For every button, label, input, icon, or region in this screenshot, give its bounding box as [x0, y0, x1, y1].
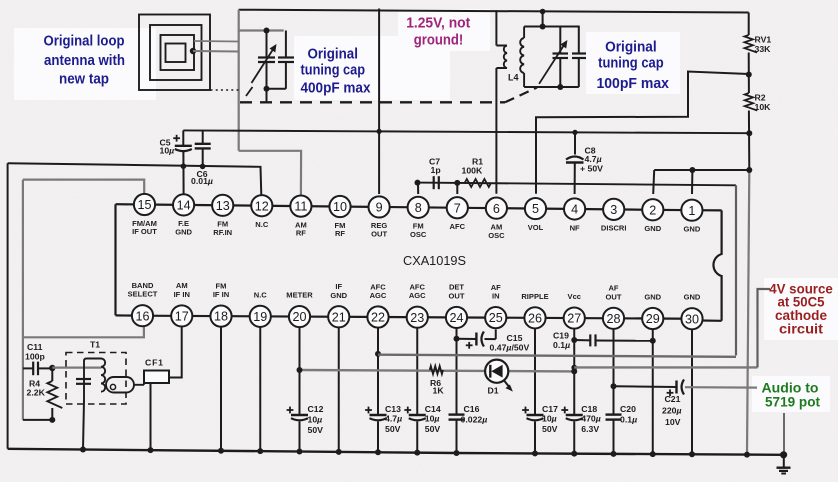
svg-text:50V: 50V	[425, 424, 441, 434]
wire antenna tap lower	[193, 50, 239, 53]
capacitor C13	[365, 407, 386, 421]
wire T1 ground drop	[83, 400, 84, 450]
svg-text:D1: D1	[488, 385, 499, 395]
svg-text:OSC: OSC	[410, 230, 427, 239]
svg-text:OUT: OUT	[371, 230, 387, 239]
wire dashed diagonal to L4 tank	[505, 88, 537, 103]
annotation 100pF tuning cap	[596, 39, 669, 92]
pin 26 RIPPLE	[521, 292, 548, 329]
label U1 part number	[403, 253, 466, 268]
svg-text:10µ: 10µ	[425, 413, 440, 423]
label RV1	[755, 35, 772, 55]
wire pin 20 column	[297, 327, 303, 454]
wire pin 18 ground column	[218, 327, 224, 454]
node pin 29 C19 junction	[650, 338, 656, 344]
resistor R2	[745, 93, 758, 110]
svg-text:16: 16	[135, 309, 149, 323]
label C12	[308, 404, 324, 435]
pin 17 AM IF IN	[171, 281, 192, 326]
svg-text:23: 23	[410, 311, 424, 325]
label C16	[461, 404, 488, 425]
svg-text:AGC: AGC	[409, 291, 426, 300]
wire right bus RV1 to R2	[748, 53, 750, 94]
label C11	[25, 342, 45, 362]
node pin 20 4V junction	[297, 367, 303, 373]
pin 3 DISCRI	[601, 199, 627, 233]
svg-text:11: 11	[294, 200, 307, 214]
svg-text:IF IN: IF IN	[213, 290, 229, 299]
svg-text:SELECT: SELECT	[128, 290, 158, 299]
svg-text:RF: RF	[335, 229, 345, 238]
node bus ground junction	[780, 451, 787, 458]
wire bottom ground bus	[8, 449, 784, 455]
node CF1 ground junction	[148, 447, 154, 453]
capacitor C6	[195, 131, 211, 166]
wire 4V supply line right	[574, 366, 757, 368]
svg-text:GND: GND	[684, 293, 701, 302]
capacitor VC1 400pF variable	[252, 31, 277, 89]
pin 20 METER	[286, 291, 313, 328]
svg-text:tuning cap: tuning cap	[301, 63, 366, 79]
node T1 ground junction	[80, 447, 86, 453]
pin 6 AM OSC	[486, 198, 507, 240]
svg-text:C20: C20	[620, 404, 636, 414]
capacitor C20	[606, 415, 622, 420]
wire 400pF arrow tail dash	[246, 87, 253, 96]
pin 27 Vcc	[564, 292, 585, 329]
wire right bus mid	[748, 111, 750, 171]
svg-text:24: 24	[449, 311, 463, 325]
label T1	[90, 340, 100, 350]
wire 400pF to pin 11	[239, 151, 301, 196]
wire pin 21 ground column	[336, 327, 342, 455]
wire C5 top line	[183, 130, 749, 133]
node pin1 gnd junction	[689, 167, 695, 173]
wire 400pF cap bottom	[267, 88, 286, 90]
svg-text:CXA1019S: CXA1019S	[403, 253, 466, 268]
pin 29 GND	[642, 293, 663, 330]
svg-text:circuit: circuit	[779, 321, 824, 336]
svg-text:RV1: RV1	[755, 35, 772, 45]
svg-text:10µ: 10µ	[308, 414, 323, 424]
svg-text:1K: 1K	[433, 386, 445, 396]
pin 19 N.C	[250, 290, 271, 327]
svg-text:Vcc: Vcc	[568, 292, 581, 301]
svg-text:BAND: BAND	[132, 281, 154, 290]
pin 9 REG OUT	[369, 196, 390, 238]
label C8	[580, 146, 603, 174]
capacitor tank fixed	[572, 27, 586, 88]
capacitor C18	[561, 407, 582, 421]
svg-text:6: 6	[493, 202, 500, 216]
transformer T1 box	[66, 353, 126, 405]
svg-text:GND: GND	[175, 228, 192, 237]
svg-text:15: 15	[137, 198, 151, 212]
svg-text:RIPPLE: RIPPLE	[521, 292, 548, 301]
svg-text:AF: AF	[608, 284, 618, 293]
svg-text:100K: 100K	[462, 166, 483, 176]
svg-text:6.3V: 6.3V	[581, 424, 599, 434]
inductor L4	[520, 27, 524, 88]
inductor T1 primary	[84, 359, 105, 401]
ground symbol	[777, 455, 791, 474]
label R1	[462, 157, 484, 176]
node bus right junction	[744, 452, 750, 458]
node C6 bottom junction	[200, 164, 206, 170]
svg-text:26: 26	[528, 311, 542, 325]
svg-text:GND: GND	[644, 224, 661, 233]
svg-text:18: 18	[214, 310, 228, 324]
wire 400pF column drop	[238, 10, 240, 151]
resistor RV1	[745, 35, 758, 53]
svg-text:Audio to: Audio to	[762, 380, 819, 395]
svg-text:13: 13	[216, 199, 230, 213]
capacitor VC2 100pF variable	[539, 27, 568, 88]
svg-text:tuning cap: tuning cap	[598, 55, 664, 71]
svg-text:19: 19	[253, 310, 267, 324]
node antenna tap	[190, 48, 196, 54]
label C20	[620, 404, 637, 425]
node pin 7 junction	[454, 180, 460, 194]
capacitor T1 internal	[76, 379, 91, 384]
pin 10 FM RF	[329, 196, 350, 238]
label D1	[488, 385, 499, 395]
svg-text:IF OUT: IF OUT	[132, 227, 157, 236]
label C17	[542, 404, 558, 434]
wire pin 6 oscillator column upper	[495, 10, 497, 45]
label L4	[508, 73, 519, 83]
pin 2 GND	[642, 199, 663, 233]
svg-text:METER: METER	[286, 291, 313, 300]
svg-text:IF: IF	[335, 282, 342, 291]
wire pin 22 column	[375, 328, 381, 456]
pin 21 IF GND	[328, 282, 349, 327]
wire pin 5 VOL to divider	[536, 72, 749, 194]
wire 4V supply line left	[300, 370, 575, 371]
capacitor C5	[173, 130, 192, 194]
wire pin 29 ground column	[650, 329, 656, 457]
svg-text:Original: Original	[605, 39, 657, 55]
wire 400pF bottom drop	[266, 89, 268, 102]
capacitor C7	[434, 176, 439, 189]
pin 30 GND	[681, 293, 702, 330]
wire CF1 to pin 17	[169, 327, 182, 378]
pin 16 BAND SELECT	[128, 281, 158, 326]
resistor R4	[47, 368, 62, 420]
svg-text:OUT: OUT	[606, 292, 622, 301]
pin 13 FM RF.IN	[212, 195, 233, 237]
capacitor C21	[614, 380, 758, 397]
svg-text:Original loop: Original loop	[44, 34, 125, 50]
svg-text:2.2K: 2.2K	[27, 387, 46, 397]
svg-text:30: 30	[685, 312, 699, 326]
wire pin 23 column	[414, 328, 420, 456]
svg-text:AFC: AFC	[370, 282, 386, 291]
wire CF1 ground drop	[150, 383, 152, 450]
svg-text:NF: NF	[570, 223, 580, 232]
pin 15 FM/AM IF OUT	[132, 194, 157, 236]
svg-text:7: 7	[454, 201, 461, 215]
wire AFC line	[418, 183, 737, 186]
wire antenna tap upper	[194, 40, 239, 43]
capacitor C12	[287, 407, 308, 421]
node pin 8 stub junction	[415, 180, 421, 194]
capacitor padder fixed	[278, 31, 294, 89]
svg-text:4: 4	[571, 203, 578, 217]
LED D1	[485, 360, 513, 392]
pin 24 DET OUT	[446, 283, 467, 328]
pin 18 FM IF IN	[210, 281, 231, 326]
pin 12 N.C	[251, 195, 272, 229]
wire T1 tap line	[52, 367, 101, 369]
wire pin 26 column	[532, 328, 538, 456]
svg-text:100pF max: 100pF max	[596, 76, 669, 92]
svg-text:C15: C15	[507, 333, 523, 343]
loop antenna L1 with tap	[139, 15, 210, 91]
svg-text:29: 29	[646, 312, 660, 326]
annotation original loop antenna	[44, 34, 126, 88]
svg-text:N.C: N.C	[255, 220, 269, 229]
svg-text:21: 21	[332, 310, 346, 324]
wire AFC drop right	[735, 185, 737, 355]
node divider tap	[746, 72, 752, 78]
svg-text:17: 17	[175, 310, 189, 324]
svg-text:C18: C18	[581, 404, 597, 414]
svg-text:0.01µ: 0.01µ	[191, 176, 213, 186]
annotation 4V source	[769, 281, 833, 336]
label C15	[490, 333, 530, 353]
node right bus C5line junction	[746, 130, 752, 136]
svg-text:AFC: AFC	[450, 222, 466, 231]
wire pin 24 column	[454, 328, 460, 456]
wire tank feed from bus	[540, 9, 546, 27]
svg-text:N.C: N.C	[254, 290, 268, 299]
wire C6 ground line	[8, 163, 262, 195]
capacitor C11	[23, 362, 52, 376]
svg-text:33K: 33K	[755, 44, 772, 54]
label C19	[553, 331, 570, 351]
svg-text:Original: Original	[307, 47, 358, 63]
wire top supply bus	[239, 10, 749, 13]
svg-text:T1: T1	[90, 340, 100, 350]
wire audio pointer drop	[783, 413, 785, 455]
svg-text:2: 2	[649, 203, 656, 217]
svg-text:R2: R2	[755, 93, 766, 103]
pin 4 NF	[564, 198, 585, 232]
svg-text:new tap: new tap	[59, 72, 109, 88]
svg-text:C21: C21	[665, 394, 681, 404]
svg-text:50V: 50V	[308, 425, 324, 435]
svg-text:0.1µ: 0.1µ	[620, 414, 637, 424]
svg-text:14: 14	[177, 199, 191, 213]
svg-text:antenna with: antenna with	[44, 53, 125, 69]
svg-text:C12: C12	[308, 404, 324, 414]
svg-text:28: 28	[606, 312, 620, 326]
svg-text:0.47µ/50V: 0.47µ/50V	[490, 342, 530, 352]
label C13	[385, 404, 402, 434]
pin 28 AF OUT	[603, 284, 624, 329]
svg-text:GND: GND	[684, 224, 701, 233]
wire antenna dotted extension	[211, 89, 239, 91]
svg-text:27: 27	[567, 312, 581, 326]
svg-text:3: 3	[610, 203, 617, 217]
label R6	[430, 378, 444, 396]
IC U1 CXA1019S outline	[116, 204, 722, 321]
svg-text:CF1: CF1	[145, 358, 164, 368]
node C5 line pin9 junction	[377, 129, 382, 134]
svg-text:GND: GND	[644, 293, 661, 302]
svg-text:DET: DET	[449, 283, 464, 292]
svg-text:4.7µ: 4.7µ	[385, 413, 402, 423]
svg-text:C13: C13	[385, 404, 401, 414]
svg-text:IN: IN	[492, 292, 500, 301]
svg-text:400pF max: 400pF max	[301, 80, 371, 96]
node C5 line C8 junction	[572, 130, 577, 135]
svg-text:10µ: 10µ	[160, 146, 175, 156]
svg-text:OSC: OSC	[488, 231, 505, 240]
wire pin 19 ground column	[257, 327, 263, 454]
svg-text:DISCRI: DISCRI	[601, 224, 627, 233]
svg-text:5719 pot: 5719 pot	[765, 394, 820, 409]
wire T1 to CF1	[134, 377, 144, 385]
inductor T1 secondary loop	[106, 377, 134, 393]
wire pin 28 column	[611, 329, 617, 457]
capacitor C19	[574, 334, 653, 346]
svg-text:RF: RF	[296, 229, 306, 238]
wire pin 16 tap line	[23, 326, 144, 337]
svg-text:12: 12	[255, 199, 269, 213]
node pin 24 C15 junction	[454, 336, 460, 342]
wire pin 6 oscillator column lower	[495, 68, 497, 194]
svg-text:C11: C11	[27, 342, 43, 352]
svg-text:10K: 10K	[755, 102, 772, 112]
inductor L3 small coil	[496, 46, 507, 69]
svg-text:+ 50V: + 50V	[580, 164, 603, 174]
node right bus ground junction	[746, 167, 752, 173]
svg-text:1: 1	[688, 204, 695, 218]
svg-text:C14: C14	[425, 404, 441, 414]
svg-text:50V: 50V	[542, 424, 558, 434]
label R4	[27, 378, 46, 397]
svg-text:AM: AM	[176, 281, 188, 290]
svg-text:8: 8	[415, 201, 422, 215]
pin 8 FM OSC	[408, 197, 429, 239]
svg-text:220µ: 220µ	[662, 406, 682, 416]
svg-text:0.1µ: 0.1µ	[553, 340, 570, 350]
label C14	[425, 404, 441, 434]
wire dashed 1.25V chassis line	[240, 101, 505, 103]
node pin 27 C19 junction	[571, 337, 577, 343]
wire right bus lower	[747, 170, 749, 454]
wire left inner rail	[22, 180, 24, 420]
label C5	[160, 137, 175, 155]
svg-text:AF: AF	[491, 283, 501, 292]
svg-text:25: 25	[489, 311, 503, 325]
svg-text:22: 22	[371, 311, 385, 325]
pin 22 AFC AGC	[367, 282, 388, 327]
wire pin 15 tap line	[23, 180, 144, 194]
svg-text:100p: 100p	[25, 351, 45, 361]
wire pin 22 AGC line	[378, 355, 736, 357]
wire left outer ground rail	[7, 163, 9, 449]
svg-text:10V: 10V	[665, 417, 681, 427]
node pin 22 tap junction	[375, 351, 381, 357]
svg-text:C17: C17	[542, 404, 558, 414]
wire 400pF cap top	[239, 29, 284, 31]
pin 1 GND	[681, 200, 702, 234]
node pin 28 C21 junction	[611, 383, 617, 389]
label R2	[755, 93, 772, 113]
svg-text:GND: GND	[330, 291, 347, 300]
svg-text:470µ: 470µ	[581, 413, 601, 423]
label CF1	[145, 358, 164, 368]
label C21	[662, 394, 682, 427]
pin 23 AFC AGC	[407, 283, 428, 328]
wire pin 27 column	[571, 329, 577, 457]
svg-text:1.25V, not: 1.25V, not	[406, 16, 470, 32]
label C6	[191, 169, 213, 186]
resistor R6	[430, 366, 443, 374]
svg-text:AGC: AGC	[370, 291, 387, 300]
capacitor C17	[522, 407, 543, 421]
annotation audio to 5719 pot	[762, 380, 821, 409]
node tank bottom junction	[557, 84, 563, 90]
svg-text:OUT: OUT	[449, 291, 465, 300]
annotation 400pF tuning cap	[301, 47, 371, 97]
label C7	[429, 157, 441, 176]
svg-text:1p: 1p	[431, 165, 441, 175]
svg-text:20: 20	[292, 310, 306, 324]
svg-text:IF IN: IF IN	[174, 290, 190, 299]
svg-text:0.022µ: 0.022µ	[461, 414, 488, 424]
svg-text:9: 9	[376, 201, 383, 215]
wire R4 bottom return	[23, 417, 55, 423]
label C18	[581, 404, 601, 434]
node 400pF top junction	[264, 28, 270, 34]
wire pin 9 REG OUT column	[378, 9, 380, 195]
svg-text:C19: C19	[553, 331, 569, 341]
capacitor C8	[566, 133, 584, 194]
filter CF1 box	[144, 371, 169, 384]
wire tank bottom	[524, 86, 579, 88]
svg-text:4.7µ: 4.7µ	[585, 154, 602, 164]
annotation 1.25V not ground	[406, 16, 470, 49]
svg-text:L4: L4	[508, 73, 519, 83]
capacitor C15	[457, 329, 496, 348]
node 400pF bottom junction	[264, 86, 270, 92]
svg-text:AFC: AFC	[409, 283, 425, 292]
svg-text:10: 10	[333, 200, 347, 214]
capacitor C14	[404, 407, 425, 421]
svg-text:C16: C16	[464, 404, 480, 414]
pin 25 AF IN	[485, 283, 506, 328]
wire pin 30 ground column	[689, 329, 695, 457]
resistor R1	[465, 179, 491, 187]
wire pins 1 2 ground line	[653, 170, 749, 194]
pin 11 AM RF	[290, 196, 311, 238]
pin 5 VOL	[525, 198, 546, 232]
node C11 R4 junction	[49, 365, 55, 371]
svg-text:RF.IN: RF.IN	[213, 228, 232, 237]
node pin 27 4V junction left	[571, 368, 577, 374]
svg-text:50V: 50V	[385, 424, 401, 434]
svg-text:10µ: 10µ	[542, 413, 557, 423]
svg-text:ground!: ground!	[414, 32, 464, 48]
wire tank top	[524, 26, 580, 28]
svg-text:5: 5	[532, 202, 539, 216]
wire right bus upper	[748, 13, 750, 36]
node C5 pin14 junction	[181, 163, 187, 169]
